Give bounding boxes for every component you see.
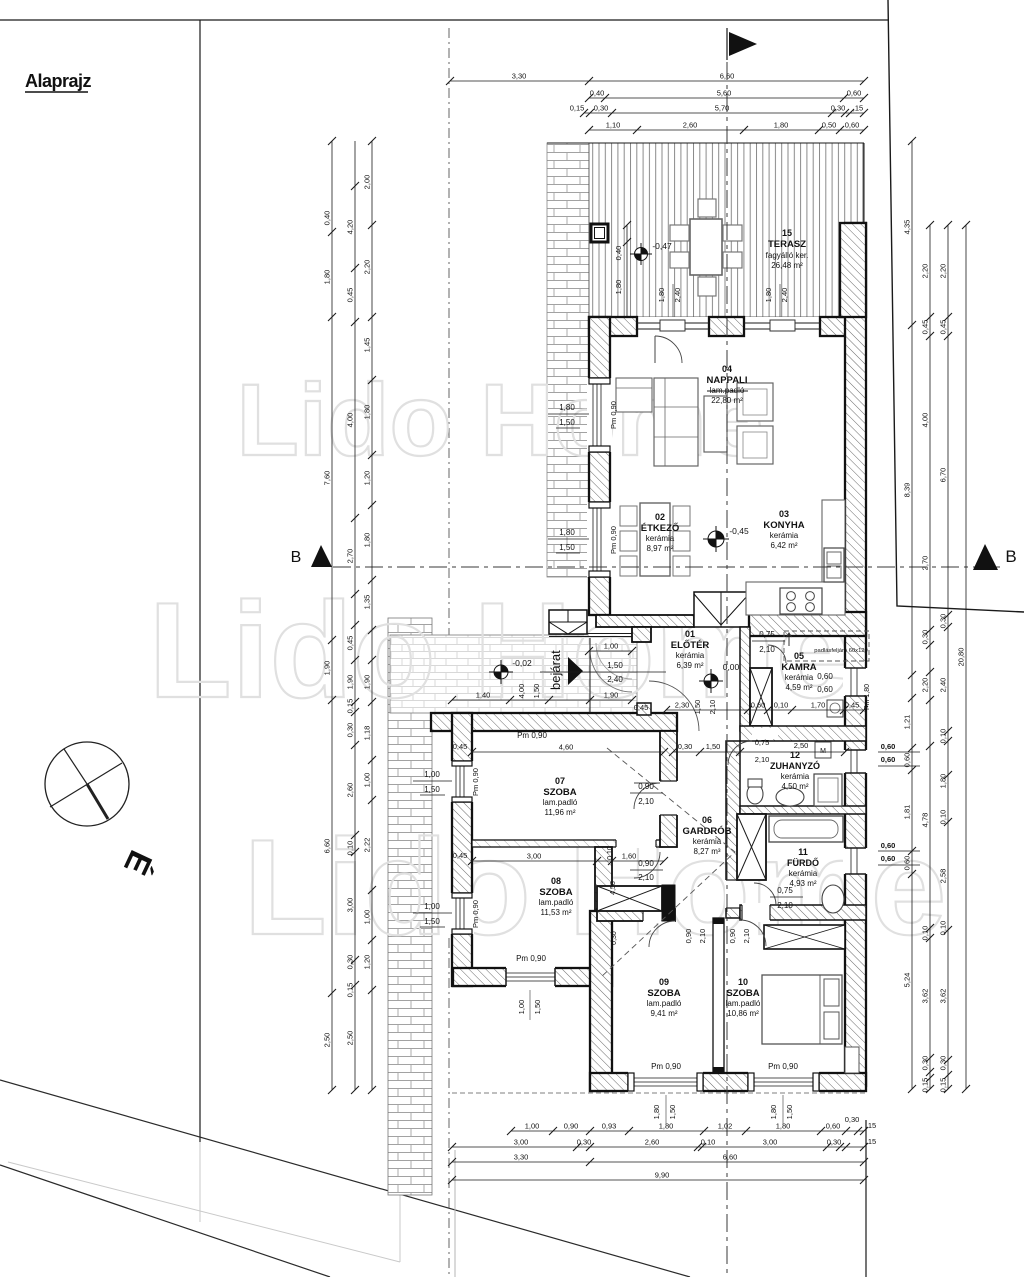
- dim chain bottom row2: [452, 1146, 864, 1148]
- door gap szoba10: [742, 903, 770, 922]
- svg-text:Pm 0,90: Pm 0,90: [517, 731, 547, 740]
- svg-text:11: 11: [798, 847, 808, 857]
- terasz dim pair left 1,80 2,40: [672, 284, 674, 317]
- dim chain left C: [371, 141, 373, 1090]
- terasz top edge line: [547, 142, 864, 144]
- chimney shaft furdo: [737, 814, 766, 880]
- svg-text:SZOBA: SZOBA: [726, 988, 759, 999]
- svg-text:1,50: 1,50: [532, 684, 541, 699]
- svg-text:2,00: 2,00: [363, 175, 372, 190]
- section marker B right: [973, 544, 998, 570]
- svg-text:0,30: 0,30: [845, 1115, 860, 1124]
- svg-text:2,60: 2,60: [683, 121, 698, 130]
- svg-text:1,50: 1,50: [607, 661, 623, 670]
- svg-text:22,80 m²: 22,80 m²: [711, 396, 743, 405]
- svg-text:kerámia: kerámia: [646, 534, 675, 543]
- etkezo bay window triangles: [694, 592, 749, 627]
- svg-text:0,15: 0,15: [921, 1078, 930, 1093]
- svg-text:2,58: 2,58: [939, 869, 948, 884]
- svg-text:0,60: 0,60: [903, 856, 912, 871]
- gray vertical x455 bottom: [454, 1150, 456, 1277]
- bottom window szoba10: [748, 1071, 819, 1093]
- svg-text:3,00: 3,00: [346, 898, 355, 913]
- svg-text:TERASZ: TERASZ: [768, 239, 806, 250]
- door gap szoba07: [659, 781, 678, 815]
- svg-text:1,00: 1,00: [363, 773, 372, 788]
- door arc szoba07: [634, 783, 660, 809]
- door arc furdo: [754, 883, 776, 905]
- svg-text:1,50: 1,50: [424, 917, 440, 926]
- svg-text:0,30: 0,30: [346, 723, 355, 738]
- svg-text:1,80: 1,80: [769, 1105, 778, 1120]
- chimney between szoba08 and szoba09: [597, 886, 662, 911]
- svg-text:kerámia: kerámia: [789, 869, 818, 878]
- survey marker 0,00: [699, 669, 723, 693]
- svg-text:1,90: 1,90: [604, 691, 619, 700]
- terasz chair right lower: [723, 252, 742, 268]
- dim chain left B: [354, 141, 356, 1090]
- dim chain bottom row1: [511, 1130, 864, 1132]
- svg-text:5,70: 5,70: [715, 104, 730, 113]
- survey marker -0.47: [630, 243, 652, 265]
- dim chain right C x948: [947, 225, 949, 1089]
- svg-text:1,80: 1,80: [363, 405, 372, 420]
- svg-text:1,20: 1,20: [363, 955, 372, 970]
- svg-text:0,30: 0,30: [939, 1056, 948, 1071]
- svg-text:4,00: 4,00: [517, 684, 526, 699]
- szoba10 pillow top: [824, 979, 839, 1006]
- svg-text:0,60: 0,60: [845, 121, 860, 130]
- svg-text:0,60: 0,60: [826, 1122, 841, 1131]
- svg-text:7,60: 7,60: [323, 471, 332, 486]
- bottom window szoba09: [628, 1071, 703, 1093]
- svg-text:4,00: 4,00: [921, 413, 930, 428]
- svg-text:1,70: 1,70: [811, 701, 826, 710]
- svg-text:0,45: 0,45: [453, 742, 468, 751]
- door arc szoba08: [634, 852, 660, 878]
- svg-text:2,10: 2,10: [742, 929, 751, 944]
- terasz chair left lower: [670, 252, 689, 268]
- dim chain right D x966 20,80: [965, 225, 967, 1089]
- svg-text:0,30: 0,30: [346, 955, 355, 970]
- svg-text:01: 01: [685, 629, 695, 639]
- nappali armchair top: [737, 383, 773, 421]
- dim chain top row2 0,40 5,60 0,60: [589, 97, 864, 99]
- svg-text:Pm 0,90: Pm 0,90: [471, 900, 480, 928]
- svg-text:4,78: 4,78: [921, 813, 930, 828]
- svg-text:1,50: 1,50: [693, 700, 702, 715]
- svg-text:5,60: 5,60: [717, 89, 732, 98]
- svg-text:1,80: 1,80: [652, 1105, 661, 1120]
- svg-text:0,60: 0,60: [817, 672, 833, 681]
- konyha counter east side: [822, 500, 845, 582]
- svg-text:fagyálló ker.: fagyálló ker.: [766, 251, 809, 260]
- svg-text:9,41 m²: 9,41 m²: [650, 1009, 677, 1018]
- terasz table: [690, 219, 722, 275]
- svg-text:6,39 m²: 6,39 m²: [676, 661, 703, 670]
- svg-text:0,60: 0,60: [881, 854, 896, 863]
- etkezo chair right: [673, 531, 690, 551]
- svg-text:1,50: 1,50: [706, 742, 721, 751]
- svg-text:4,93 m²: 4,93 m²: [789, 879, 816, 888]
- svg-text:0,60: 0,60: [817, 685, 833, 694]
- north flag: [729, 32, 757, 56]
- svg-text:0,10: 0,10: [921, 926, 930, 941]
- svg-text:0,10: 0,10: [939, 810, 948, 825]
- svg-text:NAPPALI: NAPPALI: [707, 375, 748, 386]
- svg-text:3,00: 3,00: [763, 1138, 778, 1147]
- survey marker -0,45: [703, 526, 729, 552]
- svg-text:2,70: 2,70: [346, 549, 355, 564]
- svg-text:4,50 m²: 4,50 m²: [781, 782, 808, 791]
- terasz chair bottom: [698, 277, 716, 296]
- svg-text:-0,47: -0,47: [652, 241, 672, 251]
- svg-text:2,50: 2,50: [323, 1033, 332, 1048]
- nappali coffee table: [704, 396, 727, 452]
- wall elote kamra vertical: [740, 627, 750, 731]
- top wall glazing right: [744, 322, 820, 324]
- svg-text:B: B: [1005, 547, 1016, 566]
- survey marker -0,02: [489, 660, 513, 684]
- terasz dim pair right 1,80 2,40: [779, 284, 781, 317]
- svg-text:0,30: 0,30: [939, 614, 948, 629]
- svg-text:FÜRDŐ: FÜRDŐ: [787, 857, 819, 868]
- attic stair dashed diagonal: [600, 748, 735, 978]
- terasz deck vertical stripes: [589, 143, 863, 317]
- dim chain bottom row3: [452, 1161, 864, 1163]
- svg-text:1,50: 1,50: [559, 418, 575, 427]
- entrance dim row 1,40 1,90: [452, 699, 632, 701]
- wall zuhanyzo furdo horizontal: [740, 806, 866, 814]
- stone paving strip left of terasz: [547, 143, 589, 577]
- svg-text:SZOBA: SZOBA: [539, 887, 572, 898]
- nappali armchair bottom: [737, 426, 773, 464]
- svg-text:0,60: 0,60: [847, 89, 862, 98]
- svg-text:3,00: 3,00: [514, 1138, 529, 1147]
- svg-text:3,30: 3,30: [512, 72, 527, 81]
- svg-text:0,45: 0,45: [845, 701, 860, 710]
- szoba10 bed: [762, 975, 842, 1044]
- svg-text:11,53 m²: 11,53 m²: [541, 908, 572, 917]
- svg-text:0,40: 0,40: [590, 89, 605, 98]
- compass line thin: [50, 763, 122, 807]
- svg-text:0,10: 0,10: [346, 841, 355, 856]
- south wall etkezo part: [596, 615, 694, 627]
- svg-text:GARDRÓB: GARDRÓB: [682, 825, 731, 837]
- svg-text:1,80: 1,80: [939, 774, 948, 789]
- stone paving strip left of bedrooms: [388, 618, 432, 1195]
- svg-text:0,10: 0,10: [939, 921, 948, 936]
- road diagonal lower: [0, 1165, 330, 1277]
- svg-text:11,96 m²: 11,96 m²: [545, 808, 576, 817]
- svg-text:2,10: 2,10: [698, 929, 707, 944]
- svg-text:8,27 m³: 8,27 m³: [693, 847, 720, 856]
- svg-text:1,80: 1,80: [363, 533, 372, 548]
- top wall pier left: [589, 317, 637, 336]
- porch corner cap: [637, 703, 651, 715]
- svg-text:0,60: 0,60: [881, 841, 896, 850]
- svg-text:0,30: 0,30: [827, 1138, 842, 1147]
- szoba08 dim row 3,00: [472, 860, 664, 862]
- svg-text:2,40: 2,40: [673, 288, 682, 303]
- svg-text:lam.padló: lam.padló: [726, 999, 761, 1008]
- svg-text:ELŐTÉR: ELŐTÉR: [671, 639, 710, 651]
- svg-text:2,60: 2,60: [346, 783, 355, 798]
- entrance dim 1,00: [589, 650, 632, 652]
- svg-text:8,97 m²: 8,97 m²: [646, 544, 673, 553]
- shower tray: [814, 774, 842, 806]
- south wall konyha kamra part: [749, 612, 866, 636]
- svg-text:2,20: 2,20: [363, 260, 372, 275]
- svg-text:Alaprajz: Alaprajz: [25, 71, 92, 91]
- axis dashdot horizontal section BB: [333, 566, 1003, 568]
- terasz left vertical dim 0,40 1,80: [626, 225, 628, 317]
- svg-text:0,30: 0,30: [594, 104, 609, 113]
- svg-text:KONYHA: KONYHA: [763, 520, 804, 531]
- dim chain right B x930: [929, 225, 931, 1089]
- top wall glazing left: [637, 322, 709, 324]
- svg-text:-0,02: -0,02: [512, 658, 532, 668]
- svg-text:0,15: 0,15: [939, 1078, 948, 1093]
- road diagonal gray: [8, 1162, 400, 1262]
- svg-text:ÉTKEZŐ: ÉTKEZŐ: [641, 522, 680, 534]
- svg-text:05: 05: [794, 651, 804, 661]
- wall kamra zuhanyzo horizontal: [740, 726, 866, 741]
- szoba07 top dim 4,60: [472, 751, 664, 753]
- svg-text:1,18: 1,18: [363, 726, 372, 741]
- wall furdo szoba10 horizontal: [740, 905, 866, 920]
- gray vertical continuation left: [199, 1142, 201, 1222]
- svg-text:2,30: 2,30: [675, 701, 690, 710]
- etkezo chair left: [620, 506, 637, 526]
- svg-text:8,39: 8,39: [903, 483, 912, 498]
- svg-text:0,45: 0,45: [453, 851, 468, 860]
- szoba09 top wall: [597, 909, 675, 921]
- strike line on nappali lam.padlo: [707, 390, 748, 392]
- svg-text:SZOBA: SZOBA: [543, 787, 576, 798]
- top wall pier right: [820, 317, 865, 336]
- door gap szoba08: [616, 839, 656, 848]
- svg-text:4,20: 4,20: [346, 220, 355, 235]
- svg-text:2,10: 2,10: [638, 873, 654, 882]
- east wall of szoba08: [595, 847, 612, 911]
- konyha sink unit: [824, 548, 844, 582]
- svg-text:2,20: 2,20: [921, 678, 930, 693]
- svg-text:ZUHANYZÓ: ZUHANYZÓ: [770, 760, 820, 771]
- svg-text:2,50: 2,50: [794, 741, 809, 750]
- svg-text:KAMRA: KAMRA: [781, 662, 816, 673]
- zuhanyzo sink: [776, 788, 804, 806]
- padlasfeljaro dashed rect: [784, 631, 869, 661]
- svg-text:2,20: 2,20: [921, 264, 930, 279]
- dashed line below bottom wall: [452, 1092, 866, 1094]
- svg-text:0,60: 0,60: [903, 753, 912, 768]
- porch steps box: [549, 610, 587, 634]
- terasz east boundary line: [863, 143, 865, 223]
- svg-text:1,50: 1,50: [424, 785, 440, 794]
- svg-text:2,70: 2,70: [921, 556, 930, 571]
- svg-text:3,62: 3,62: [939, 989, 948, 1004]
- svg-text:lam.padló: lam.padló: [647, 999, 682, 1008]
- svg-text:1,21: 1,21: [903, 715, 912, 730]
- terasz column small black square: [591, 224, 608, 242]
- svg-text:2,40: 2,40: [607, 675, 623, 684]
- door gap furdo in vertical wall: [725, 880, 741, 908]
- etkezo chair right: [673, 506, 690, 526]
- svg-text:0,45: 0,45: [921, 320, 930, 335]
- svg-text:,15: ,15: [866, 1121, 876, 1130]
- svg-text:1,80: 1,80: [559, 528, 575, 537]
- chimney shaft kamra: [750, 668, 772, 726]
- svg-text:padlásfeljáró 60x120: padlásfeljáró 60x120: [814, 648, 868, 654]
- svg-text:2,10: 2,10: [777, 901, 793, 910]
- svg-text:0,75: 0,75: [759, 630, 775, 639]
- svg-text:Pm 0,90: Pm 0,90: [609, 526, 618, 554]
- svg-text:4,59 m²: 4,59 m²: [785, 683, 812, 692]
- bottom window rotated dims szoba09: [665, 1095, 667, 1125]
- nappali door arc from terasz: [655, 336, 682, 363]
- svg-text:1,00: 1,00: [424, 902, 440, 911]
- front door swing arc: [590, 650, 632, 692]
- svg-text:0,15: 0,15: [346, 699, 355, 714]
- dashed setback line x449: [448, 28, 450, 640]
- top wall pier middle: [709, 317, 744, 336]
- szoba10 wardrobe: [764, 925, 845, 949]
- svg-text:Pm 0,90: Pm 0,90: [471, 768, 480, 796]
- svg-text:0,90: 0,90: [728, 929, 737, 944]
- svg-text:0,90: 0,90: [684, 929, 693, 944]
- axis dashdot vertical center: [726, 30, 728, 1277]
- door arc zuhanyzo: [728, 741, 752, 765]
- front door threshold lines: [549, 633, 632, 635]
- svg-text:0,10: 0,10: [939, 729, 948, 744]
- svg-text:0,90: 0,90: [564, 1122, 579, 1131]
- svg-text:10,86 m²: 10,86 m²: [727, 1009, 759, 1018]
- zuhanyzo toilet: [747, 784, 763, 804]
- road diagonal upper: [0, 1080, 690, 1277]
- bottom window rotated dims szoba10: [782, 1095, 784, 1125]
- svg-text:Pm 0,90: Pm 0,90: [651, 1062, 681, 1071]
- svg-text:0,30: 0,30: [577, 1138, 592, 1147]
- konyha stove: [780, 588, 822, 614]
- site boundary right with bend: [888, 0, 1024, 612]
- svg-text:0,30: 0,30: [611, 931, 618, 945]
- svg-text:1,00: 1,00: [517, 1000, 526, 1015]
- svg-text:0,60: 0,60: [881, 742, 896, 751]
- svg-text:1,80: 1,80: [614, 280, 623, 295]
- svg-text:0,00: 0,00: [723, 662, 740, 672]
- doorway elotour to hall: [679, 715, 735, 729]
- svg-text:1,80: 1,80: [559, 403, 575, 412]
- svg-text:0,75: 0,75: [755, 738, 770, 747]
- svg-text:0,45: 0,45: [634, 703, 649, 712]
- wall stub gardrob szoba09: [662, 885, 675, 921]
- svg-text:kerámia: kerámia: [676, 651, 705, 660]
- dim chain top row3 0,15 0,30 5,70 0,30 0,15: [584, 112, 864, 114]
- compass circle: [45, 742, 129, 826]
- door arc hall from elote: [649, 681, 699, 731]
- svg-text:,15: ,15: [866, 1137, 876, 1146]
- svg-text:0,50: 0,50: [822, 121, 837, 130]
- svg-text:2,40: 2,40: [939, 678, 948, 693]
- site boundary left vertical: [199, 20, 201, 1142]
- svg-text:06: 06: [702, 815, 712, 825]
- svg-text:0,60: 0,60: [751, 701, 766, 710]
- svg-text:SZOBA: SZOBA: [647, 988, 680, 999]
- svg-text:0,60: 0,60: [881, 755, 896, 764]
- svg-text:0,93: 0,93: [602, 1122, 617, 1131]
- szoba10 bench: [845, 1047, 859, 1073]
- svg-text:0,40: 0,40: [614, 246, 623, 261]
- svg-text:lam.padló: lam.padló: [710, 386, 745, 395]
- svg-text:2,10: 2,10: [755, 755, 770, 764]
- svg-text:26,48 m²: 26,48 m²: [771, 261, 803, 270]
- svg-text:02: 02: [655, 512, 665, 522]
- terasz chair left upper: [670, 225, 689, 241]
- svg-text:1,10: 1,10: [606, 121, 621, 130]
- bejarat arrow: [568, 657, 583, 685]
- svg-text:1,40: 1,40: [476, 691, 491, 700]
- svg-text:3,62: 3,62: [921, 989, 930, 1004]
- left wall upper with windows: [589, 317, 610, 615]
- svg-text:-0,45: -0,45: [729, 526, 749, 536]
- svg-text:0,45: 0,45: [346, 288, 355, 303]
- etkezo chair left: [620, 556, 637, 576]
- wall between szoba07 and szoba08: [472, 840, 662, 847]
- house floor lower section: [452, 713, 866, 1091]
- wall szoba07 gardrob vertical: [660, 731, 677, 847]
- left wall lower with windows: [452, 713, 472, 986]
- terasz right wall: [840, 223, 866, 317]
- dim chain top row1 3,30 6,60: [450, 80, 864, 82]
- svg-text:0,10: 0,10: [607, 846, 614, 860]
- svg-text:1,50: 1,50: [785, 1105, 794, 1120]
- dim chain top row4 1,10 2,60 1,80 0,50 0,60: [589, 129, 864, 131]
- svg-text:6,42 m²: 6,42 m²: [770, 541, 797, 550]
- svg-text:4,00: 4,00: [346, 413, 355, 428]
- svg-text:1,00: 1,00: [525, 1122, 540, 1131]
- szoba07 top wall: [431, 713, 677, 731]
- right wall window dim labels upper: [878, 751, 920, 753]
- svg-text:2,60: 2,60: [645, 1138, 660, 1147]
- svg-text:09: 09: [659, 977, 669, 987]
- svg-text:1,20: 1,20: [363, 471, 372, 486]
- svg-text:1,80: 1,80: [323, 270, 332, 285]
- svg-text:0,15: 0,15: [346, 983, 355, 998]
- svg-text:,15: ,15: [853, 104, 863, 113]
- svg-text:4,35: 4,35: [903, 220, 912, 235]
- svg-text:1,50: 1,50: [533, 1000, 542, 1015]
- svg-text:kerámia: kerámia: [770, 531, 799, 540]
- szoba08 bottom wall: [453, 968, 612, 986]
- bottom wall of house: [590, 1073, 866, 1091]
- svg-text:2,50: 2,50: [346, 1031, 355, 1046]
- svg-text:kerámia: kerámia: [693, 837, 722, 846]
- szoba08 bottom window: [506, 966, 555, 988]
- washing machine M: [815, 742, 831, 758]
- zuhanyzo dim row: [673, 751, 845, 753]
- szoba08 bottom window rotated dims: [529, 990, 531, 1020]
- terasz chair right upper: [723, 225, 742, 241]
- etkezo chair right: [673, 556, 690, 576]
- svg-text:6,60: 6,60: [720, 72, 735, 81]
- kamra corner sink: [827, 700, 843, 717]
- svg-text:03: 03: [779, 509, 789, 519]
- svg-text:1,00: 1,00: [363, 910, 372, 925]
- dim chain right A x912: [911, 141, 913, 1089]
- compass needle: [64, 749, 87, 784]
- svg-text:07: 07: [555, 776, 565, 786]
